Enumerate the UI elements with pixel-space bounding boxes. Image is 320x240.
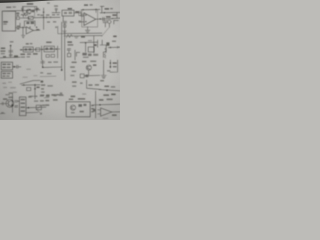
box FL2	[44, 46, 54, 52]
wire right stub	[112, 17, 120, 19]
junction L	[21, 49, 22, 50]
capacitor C13	[103, 17, 105, 21]
wire y112.5	[26, 111, 38, 113]
junction D	[43, 12, 44, 13]
label 4ohm	[36, 87, 39, 88]
label 4n7	[71, 96, 76, 98]
label 2sc	[113, 62, 117, 63]
label above Q4	[9, 92, 13, 93]
diode D3	[3, 56, 6, 58]
wire inv input drop	[22, 28, 24, 36]
arrow out	[116, 46, 119, 48]
label bottom of stage	[29, 96, 33, 97]
paper top edge shadow	[0, 0, 56, 3]
wire U3 out	[33, 29, 40, 31]
pins right of PA1	[91, 105, 94, 106]
ground GND5	[101, 75, 106, 78]
parts inside U3 stage	[26, 22, 29, 24]
label column right rail	[67, 41, 72, 42]
wire U5 in+	[80, 14, 84, 16]
junction out U5	[100, 18, 101, 19]
mark left of opamp	[93, 109, 96, 112]
box corner top right	[114, 20, 119, 24]
junction Z1	[12, 100, 14, 102]
wire K drop	[9, 46, 11, 58]
label above U2	[68, 8, 72, 9]
junction C	[36, 9, 37, 10]
label n	[70, 22, 74, 23]
parts inside FL1	[25, 48, 28, 50]
faint labels lower-left field	[2, 83, 6, 84]
capacitor C4 stack	[103, 21, 108, 27]
label 2M2	[81, 36, 85, 37]
wire partial y97	[44, 97, 49, 99]
label row mid-top	[6, 7, 11, 8]
box corner right mid	[76, 52, 79, 56]
junction I	[29, 27, 30, 28]
wire rail left	[61, 22, 63, 70]
mark w	[80, 82, 83, 84]
label 4F	[35, 8, 38, 9]
label tm	[100, 80, 104, 81]
parts inside U2	[64, 12, 67, 14]
wire U2 down	[62, 16, 64, 21]
wire Q1 stage left leg	[22, 7, 24, 18]
label wt go	[26, 43, 29, 44]
transistor Q3	[86, 65, 91, 70]
cluster lower mid	[80, 74, 84, 78]
label 19	[47, 2, 50, 3]
capacitor C8	[17, 65, 18, 68]
wire lower link	[20, 17, 40, 19]
wire Q1 stage right leg	[34, 7, 36, 18]
wire center bus	[20, 48, 60, 51]
mark base cap	[2, 102, 3, 105]
bus double line lower	[64, 35, 102, 37]
label m m2	[47, 21, 50, 22]
wire far right bus	[100, 11, 120, 13]
wire drop x97.5	[97, 40, 99, 47]
speck row bottom center	[54, 94, 57, 95]
junction on y42 wire	[85, 42, 86, 43]
transistor Q1	[26, 9, 31, 14]
node labels right of U1	[17, 26, 20, 27]
component blob right	[106, 42, 109, 45]
wire lower-left bus	[0, 56, 20, 59]
wire partial y76	[40, 75, 56, 77]
junction S rails	[61, 69, 63, 71]
label 4x2	[75, 11, 79, 12]
label row y95	[40, 95, 44, 97]
lamp LP1	[108, 20, 111, 23]
label C5	[45, 100, 49, 102]
ladder rung 2	[21, 103, 25, 105]
wire drop x85.5	[85, 43, 87, 52]
resistor R5 vertical squiggle	[105, 48, 107, 52]
wire mid bus	[40, 16, 60, 18]
label in stage	[21, 8, 23, 9]
junction B	[29, 9, 30, 10]
label m lower	[40, 72, 43, 73]
arrow down-right	[38, 111, 42, 115]
label column right of rails	[72, 62, 77, 63]
staircase box edges	[100, 40, 106, 57]
box RLY1	[88, 47, 94, 52]
label above PA1	[69, 99, 73, 100]
connector ladder TB1	[19, 97, 26, 116]
capacitor C11	[15, 106, 18, 108]
tick T2	[50, 17, 52, 19]
capacitor C10	[15, 101, 20, 103]
component box FL mid	[36, 48, 40, 52]
junction N	[41, 49, 42, 50]
junction G	[104, 12, 105, 13]
wire top bus	[2, 10, 40, 11]
junction Y	[106, 89, 108, 91]
paper grain	[0, 0, 1, 1]
box FL1	[23, 47, 33, 52]
wire U5 gnd drop	[87, 27, 89, 30]
box corner right low	[110, 60, 118, 72]
mark right of X2	[42, 105, 45, 106]
box J2 left connector	[1, 71, 12, 78]
labels right of ladder col1	[28, 96, 31, 97]
label under row2	[21, 56, 25, 57]
junction A	[22, 9, 23, 10]
wire drop x103.5	[103, 60, 105, 75]
wire bottom left stub	[0, 112, 5, 114]
bus double line upper	[64, 32, 102, 34]
ladder rung 1	[21, 99, 25, 101]
wire drop x110.5	[109, 60, 111, 68]
cluster under RLY1	[82, 53, 86, 56]
opamp U4 inputs	[98, 110, 101, 114]
junction D2	[43, 17, 44, 18]
wire drop x95.5	[95, 91, 97, 118]
wire rail right	[64, 27, 66, 70]
junction X	[34, 88, 36, 90]
junction K	[10, 45, 12, 47]
ground GND3	[74, 37, 78, 38]
parts inside PA1	[78, 104, 82, 107]
faint marks center gap	[26, 69, 30, 70]
label inside U1	[3, 21, 8, 22]
slash in X2	[36, 105, 41, 109]
label under stage	[37, 14, 40, 15]
wire stage bus	[16, 23, 27, 28]
component X1 hatched box	[28, 16, 33, 19]
label 10k 10n	[88, 84, 92, 85]
capacitor C9	[41, 62, 45, 64]
label right of Q3	[93, 64, 96, 65]
note mark	[55, 26, 57, 28]
wire Q4 base	[0, 103, 8, 105]
label rows mid-bottom	[41, 81, 44, 83]
mark left edge	[60, 92, 62, 95]
wire long y90	[99, 90, 120, 91]
wire U5 in-	[80, 21, 84, 23]
label faint low	[82, 93, 86, 94]
label on out wire	[106, 16, 111, 17]
capacitor C7	[67, 49, 70, 53]
wire across 80s	[80, 41, 98, 43]
wire vert mid60	[42, 60, 44, 67]
resistor R4	[67, 53, 70, 56]
ground GND2	[63, 31, 67, 32]
resistor R1 zigzag	[21, 14, 28, 16]
wire out right mid	[108, 46, 120, 48]
op-amp U5 input marks	[85, 15, 87, 16]
wire rail tail	[64, 70, 66, 80]
pins J1	[2, 64, 6, 66]
diode D4	[14, 55, 18, 57]
wire right top bus	[81, 8, 100, 10]
tick T1	[46, 17, 48, 19]
component blob right of Q1	[32, 10, 35, 12]
component blob left of Q1	[24, 13, 26, 14]
mark stub	[1, 112, 4, 113]
junction U	[110, 66, 112, 68]
box X2	[36, 105, 41, 110]
wire y85	[22, 84, 40, 86]
label pair top80	[82, 61, 86, 62]
wire U5 out	[96, 18, 113, 21]
box corner lower mid	[87, 80, 101, 89]
wire J1 to C8	[13, 66, 21, 68]
junction R	[42, 66, 44, 68]
label out U3	[36, 29, 39, 30]
resistor R6 vertical squiggle	[104, 53, 106, 58]
junction AA	[28, 107, 30, 109]
wire drop x75	[74, 50, 76, 60]
wire y104.5 right	[93, 103, 120, 106]
box U3 top	[24, 21, 35, 26]
capacitor C1	[55, 9, 57, 13]
label under cluster	[83, 57, 89, 58]
ladder rung 4	[21, 110, 25, 112]
label row values	[40, 15, 43, 16]
junction W	[34, 84, 36, 86]
wire bottom stub	[103, 117, 108, 119]
label and 47	[103, 94, 109, 96]
capacitor C12	[81, 14, 84, 16]
wire right drop	[116, 13, 118, 19]
label p W 8	[48, 62, 52, 63]
wire vertical feed	[43, 8, 45, 29]
junction O	[56, 48, 57, 49]
junction M	[35, 49, 36, 50]
junction F	[95, 9, 96, 10]
label 12ax	[3, 98, 7, 99]
label SM-2	[27, 3, 33, 4]
wire y107.5	[26, 106, 46, 109]
ladder rung 3	[21, 107, 25, 109]
label plus	[113, 36, 116, 38]
transistor Q5 inside PA1	[70, 105, 75, 110]
capacitor C5	[9, 50, 13, 52]
ground GND1	[21, 35, 25, 37]
capacitor C3 stack	[63, 21, 67, 27]
junction P	[110, 47, 111, 48]
wire diagonal climb	[102, 28, 109, 36]
resistor R7	[27, 88, 31, 91]
label 100n under U4	[112, 114, 117, 116]
junction Q	[13, 66, 15, 68]
opamp U3	[26, 27, 33, 34]
ground GND4	[85, 30, 90, 32]
wire bus left corner	[58, 26, 64, 34]
box U1 input module	[2, 11, 15, 31]
label under corner	[107, 70, 110, 71]
wire Q3 down	[88, 70, 90, 75]
parts below FL2	[46, 55, 49, 58]
wire LP1 down	[108, 24, 110, 28]
box U2	[62, 10, 74, 16]
label 4u7 top right	[99, 99, 103, 101]
junction Z2 big	[11, 104, 13, 106]
wire y75	[84, 74, 100, 76]
label C45	[45, 104, 49, 106]
wire FL2 right edge	[57, 46, 59, 58]
wire sloped into stage	[20, 80, 40, 84]
op-amp U5	[84, 13, 96, 26]
wire drop x93.8	[93, 36, 95, 53]
junction Q1 emitter	[28, 17, 29, 18]
faint label above RLY1	[88, 40, 92, 41]
label 4u7 inside PA1	[80, 111, 84, 113]
label pair low center	[46, 95, 50, 97]
capacitor C2	[100, 6, 104, 13]
label above C1	[54, 5, 58, 6]
box J1 left connector	[1, 62, 12, 70]
junction J	[36, 27, 37, 28]
wire U2 out	[74, 12, 81, 14]
box Q1 stage outline	[22, 7, 36, 12]
box PA1 output module	[66, 102, 90, 117]
wire U4 out	[112, 111, 120, 113]
junction V	[23, 84, 25, 86]
label plus2	[94, 44, 97, 46]
parts inside FL2	[45, 48, 48, 50]
opamp U4	[101, 108, 112, 116]
label 1k right	[112, 14, 116, 15]
junction H	[22, 27, 23, 28]
label text right of U1	[16, 13, 19, 14]
resistor R8	[79, 11, 81, 15]
label sc column	[1, 48, 5, 49]
wire to rails	[43, 66, 62, 68]
label mid-left small	[10, 41, 14, 42]
box U5 outline	[82, 10, 98, 27]
transistor Q4	[6, 100, 14, 108]
wire feedback up	[95, 10, 97, 13]
wire drop x35	[34, 85, 36, 99]
label 10K top right	[84, 4, 88, 5]
wire vert x12.5	[12, 93, 14, 112]
junction E	[83, 9, 84, 10]
capacitor C6	[9, 55, 12, 56]
label row under FL1	[20, 54, 25, 55]
label above FL2	[46, 42, 51, 43]
wire FL2 left edge	[41, 46, 43, 60]
label top of staircase	[112, 41, 116, 42]
resistor R3 diag	[66, 34, 72, 37]
label 100n	[72, 81, 77, 82]
junction AB	[99, 104, 101, 106]
wire C1 to right	[52, 12, 60, 14]
pins J2	[2, 73, 6, 74]
component K1 small box	[17, 17, 20, 20]
component blob below R8	[79, 21, 82, 23]
label 25v	[104, 86, 109, 87]
junction T	[110, 62, 112, 64]
resistor R2	[63, 25, 66, 28]
label 3.4K	[105, 8, 109, 9]
